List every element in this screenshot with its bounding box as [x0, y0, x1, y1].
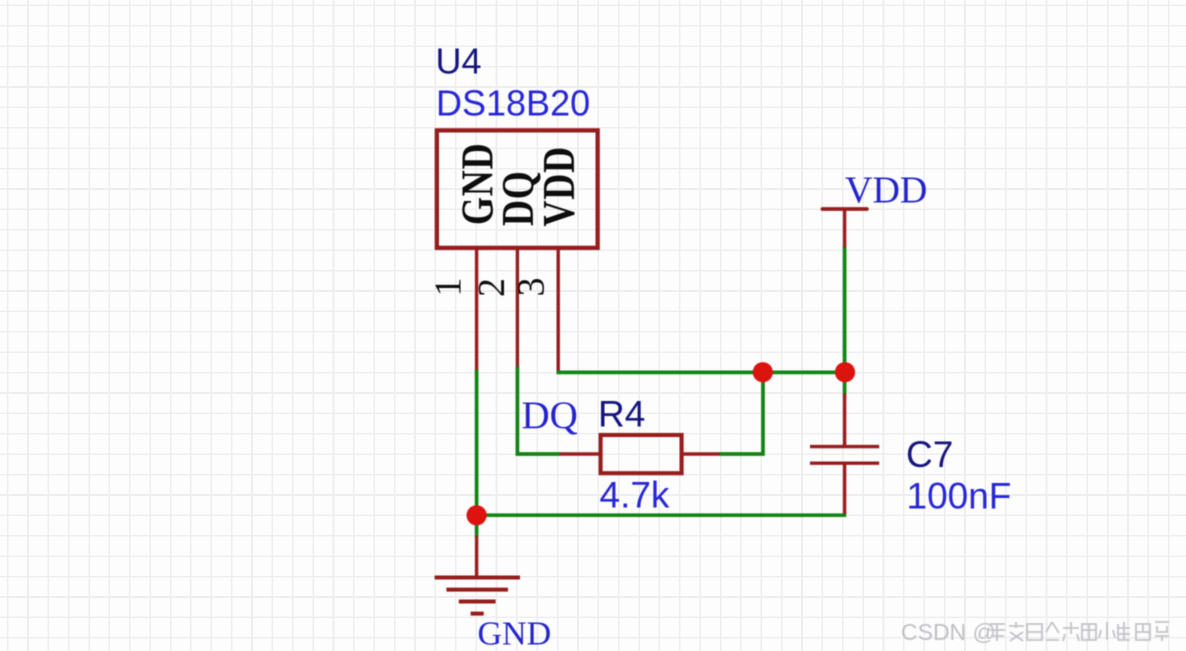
- wire VDD symbol down to junction: [843, 247, 847, 395]
- junction at ground node: [467, 505, 487, 525]
- junction at resistor top node: [753, 362, 773, 382]
- value 100nF label: [907, 475, 1012, 516]
- power symbol VDD bar: [822, 207, 867, 211]
- svg-text:4.7k: 4.7k: [600, 475, 670, 516]
- resistor R4 right lead: [682, 452, 720, 455]
- wire pin1 to ground junction: [475, 370, 479, 537]
- svg-text:3: 3: [511, 278, 553, 297]
- pin 1 of U4: [475, 248, 478, 372]
- ground symbol stub: [475, 536, 478, 578]
- designator U4 label: [436, 41, 482, 82]
- resistor R4 left lead: [560, 452, 600, 455]
- svg-text:C7: C7: [906, 434, 953, 475]
- svg-text:100nF: 100nF: [907, 475, 1012, 516]
- pin name GND: [453, 143, 503, 225]
- svg-text:DS18B20: DS18B20: [436, 82, 590, 123]
- ground symbol bar 4: [471, 612, 484, 616]
- svg-text:VDD: VDD: [845, 169, 927, 211]
- svg-text:R4: R4: [598, 393, 645, 434]
- component U4 body: [437, 130, 598, 248]
- capacitor C7 top plate: [810, 445, 879, 448]
- svg-text:1: 1: [428, 278, 470, 297]
- wire pin3 to VDD vertical (top horizontal): [556, 371, 846, 375]
- svg-text:CSDN @: CSDN @: [901, 619, 996, 645]
- pin number 2: [471, 278, 513, 297]
- designator C7 label: [906, 434, 953, 475]
- capacitor C7 bottom plate: [810, 462, 879, 465]
- watermark CSDN: [901, 619, 996, 645]
- ground symbol bar 2: [446, 588, 508, 592]
- svg-text:VDD: VDD: [534, 146, 584, 226]
- pin 2 of U4: [516, 248, 519, 369]
- capacitor C7 top lead: [843, 394, 846, 447]
- resistor R4 body: [601, 435, 682, 473]
- net label GND: [478, 616, 552, 651]
- svg-text:2: 2: [471, 278, 513, 297]
- svg-text:DQ: DQ: [522, 394, 578, 437]
- value 4.7k label: [600, 475, 670, 516]
- wire resistor right to top junction: [719, 372, 763, 454]
- wire bottom ground net horizontal: [475, 513, 846, 517]
- pin name DQ: [493, 170, 543, 226]
- pin number 1: [428, 278, 470, 297]
- ground symbol bar 3: [459, 600, 496, 604]
- svg-text:GND: GND: [478, 616, 552, 651]
- watermark pseudo CJK glyphs: [990, 622, 1169, 641]
- pin number 3: [511, 278, 553, 297]
- svg-text:U4: U4: [436, 41, 482, 82]
- net label VDD: [845, 169, 927, 211]
- capacitor C7 bottom lead: [843, 463, 846, 514]
- power symbol VDD stub: [843, 209, 846, 248]
- wire pin2 down and right to resistor (DQ net): [517, 367, 560, 454]
- designator R4 label: [598, 393, 645, 434]
- ground symbol bar 1: [435, 576, 520, 580]
- pin name VDD: [534, 146, 584, 226]
- net label DQ: [522, 394, 578, 437]
- pin 3 of U4: [557, 248, 560, 371]
- value DS18B20 label: [436, 82, 590, 123]
- junction at VDD capacitor node: [835, 362, 855, 382]
